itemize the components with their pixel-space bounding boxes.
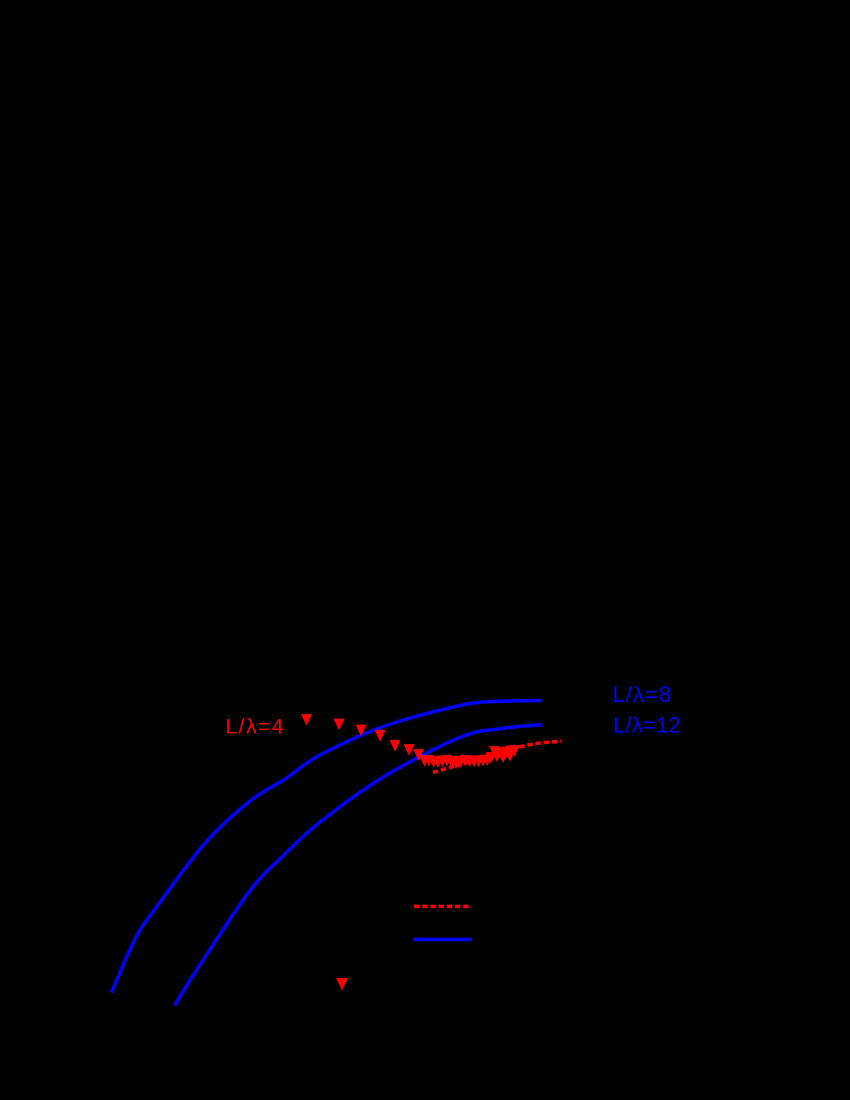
- svg-text:L/λ=8: L/λ=8: [613, 682, 672, 707]
- marker 5: [390, 740, 401, 752]
- red dashed fit curve: [433, 741, 561, 772]
- marker 1: [301, 714, 312, 726]
- legend dashed red line: [414, 905, 471, 909]
- legend solid blue line: [414, 938, 473, 942]
- marker 6: [404, 744, 415, 756]
- curve L/lambda=8 (upper blue curve): [112, 701, 543, 993]
- marker 3: [356, 725, 367, 737]
- marker cluster: [419, 755, 430, 767]
- legend marker triangle: [336, 978, 348, 990]
- marker 2: [334, 719, 345, 731]
- marker 7: [413, 749, 424, 761]
- curve L/lambda=12 (lower blue curve): [175, 725, 543, 1006]
- svg-text:L/λ=12: L/λ=12: [613, 712, 681, 737]
- svg-text:L/λ=4: L/λ=4: [226, 716, 285, 739]
- data marker triangles (red, downward): [301, 714, 520, 769]
- marker 4: [375, 730, 386, 742]
